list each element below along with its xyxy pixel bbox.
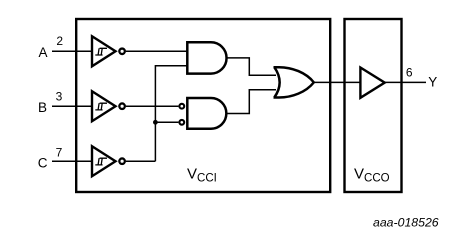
wire inverter B output <box>126 105 178 107</box>
wire AND1 output to OR top input <box>227 58 276 75</box>
svg-text:C: C <box>38 155 48 170</box>
svg-text:A: A <box>39 45 48 60</box>
wire input C <box>52 160 93 162</box>
svg-text:aaa-018526: aaa-018526 <box>373 215 439 229</box>
bubble AND2 input bottom <box>179 120 184 125</box>
wire input B <box>52 105 93 107</box>
svg-text:Y: Y <box>428 75 437 90</box>
svg-text:7: 7 <box>56 145 63 159</box>
node junction on vertical <box>153 120 158 125</box>
bubble AND2 input top <box>179 104 184 109</box>
wire vertical from C-inverter up to AND1 lower input <box>155 66 188 162</box>
buffer U4 (output driver) <box>360 68 384 98</box>
wire inverter C output to vertical <box>126 160 155 162</box>
schmitt inverter A <box>92 36 125 66</box>
box VCCO (output supply domain) <box>345 19 402 192</box>
svg-text:3: 3 <box>56 89 63 103</box>
wire OR output to buffer <box>314 81 362 83</box>
box VCCI (input supply domain) <box>76 19 330 192</box>
OR gate U3 <box>274 67 314 97</box>
schmitt inverter B <box>92 91 125 121</box>
wire buffer output Y <box>385 81 426 83</box>
wire AND2 output to OR bottom input <box>227 90 276 114</box>
svg-text:B: B <box>38 100 47 115</box>
AND gate U1 (top) <box>187 42 226 73</box>
svg-text:6: 6 <box>406 66 413 80</box>
AND gate U2 (bottom, active-low inputs) <box>187 98 226 129</box>
svg-text:VCCI: VCCI <box>187 166 217 185</box>
wire inverter A output <box>126 50 189 52</box>
svg-text:VCCO: VCCO <box>354 166 390 185</box>
schmitt inverter C <box>92 146 125 176</box>
wire input A <box>52 50 93 52</box>
wire junction branch to lower bubble of AND2 <box>155 121 178 123</box>
svg-text:2: 2 <box>56 34 63 48</box>
